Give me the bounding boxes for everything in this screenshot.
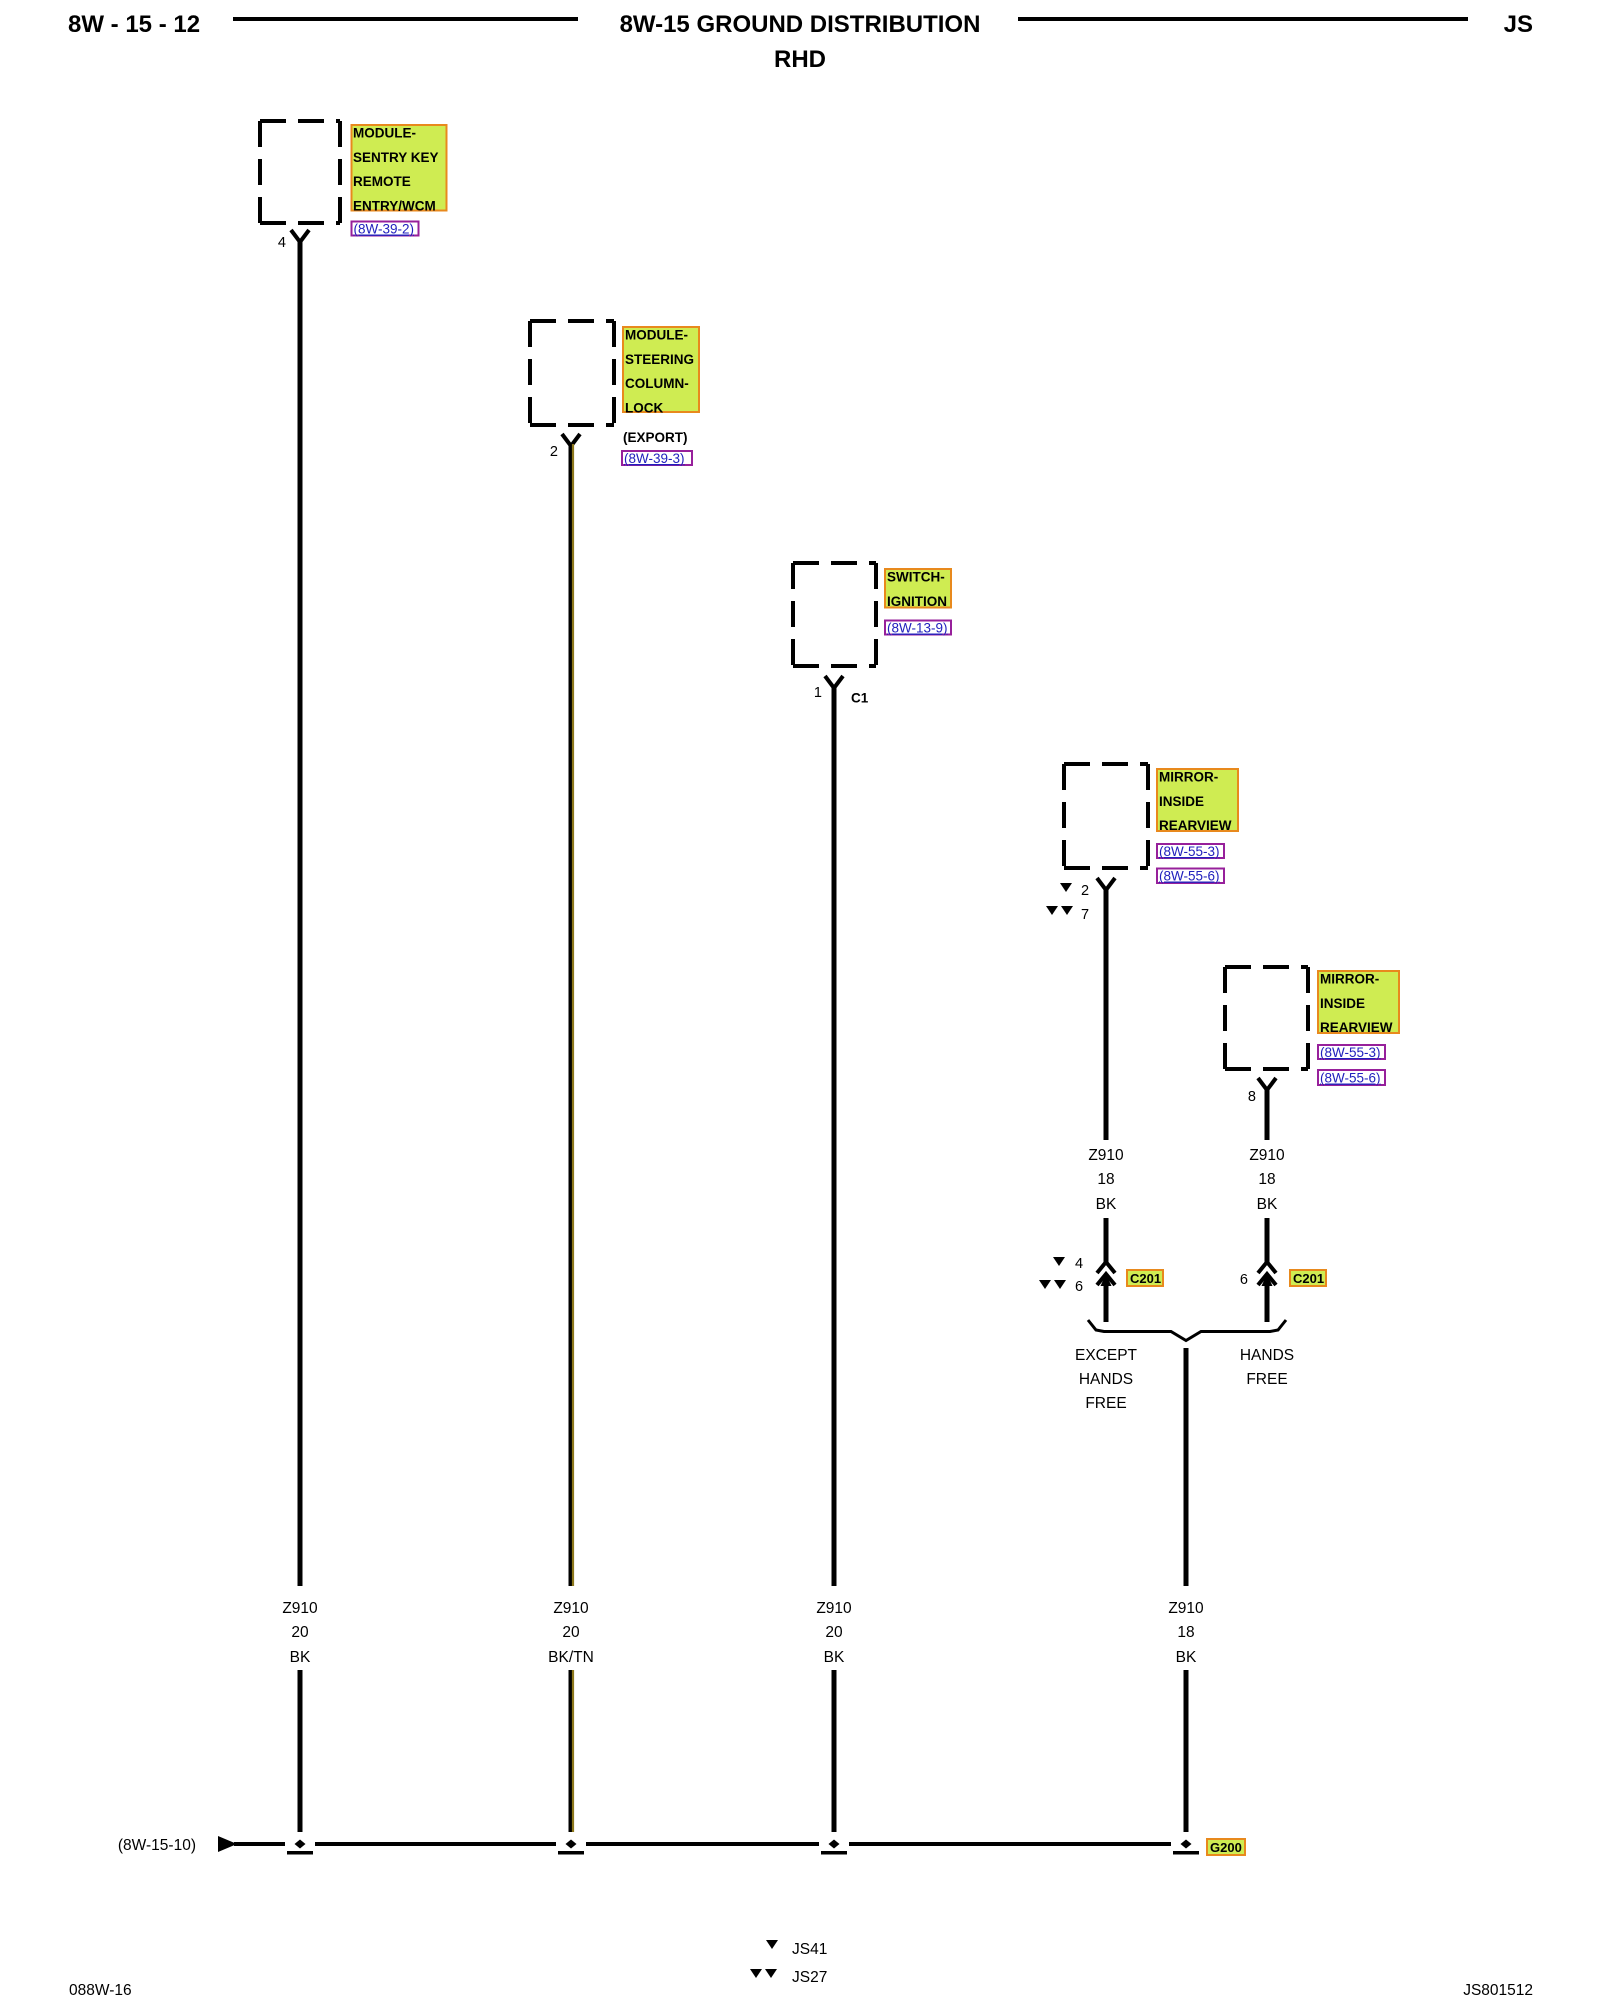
svg-text:ENTRY/WCM: ENTRY/WCM — [353, 198, 436, 213]
svg-text:IGNITION: IGNITION — [887, 594, 947, 609]
svg-text:Z910: Z910 — [553, 1600, 589, 1617]
svg-text:BK: BK — [1257, 1196, 1278, 1213]
svg-text:EXCEPT: EXCEPT — [1075, 1347, 1138, 1364]
svg-text:18: 18 — [1258, 1171, 1275, 1188]
svg-text:20: 20 — [291, 1624, 309, 1641]
svg-text:Z910: Z910 — [1249, 1147, 1285, 1164]
svg-text:4: 4 — [1075, 1256, 1083, 1272]
svg-text:JS27: JS27 — [792, 1969, 827, 1986]
svg-text:20: 20 — [562, 1624, 580, 1641]
svg-text:(8W-39-2): (8W-39-2) — [354, 222, 415, 237]
svg-text:LOCK: LOCK — [625, 400, 663, 415]
svg-text:BK: BK — [290, 1649, 311, 1666]
svg-text:6: 6 — [1075, 1279, 1083, 1295]
svg-text:BK: BK — [1096, 1196, 1117, 1213]
svg-text:INSIDE: INSIDE — [1320, 996, 1365, 1011]
svg-text:(8W-55-6): (8W-55-6) — [1159, 869, 1220, 884]
svg-text:C201: C201 — [1293, 1271, 1324, 1286]
svg-text:COLUMN-: COLUMN- — [625, 376, 689, 391]
svg-text:BK/TN: BK/TN — [548, 1649, 594, 1666]
svg-text:MODULE-: MODULE- — [353, 126, 416, 141]
svg-text:(8W-55-3): (8W-55-3) — [1320, 1045, 1381, 1060]
svg-text:Z910: Z910 — [1168, 1600, 1204, 1617]
svg-text:RHD: RHD — [774, 46, 826, 73]
svg-text:JS41: JS41 — [792, 1941, 827, 1958]
svg-text:(8W-13-9): (8W-13-9) — [887, 621, 948, 636]
svg-text:4: 4 — [278, 235, 286, 251]
svg-text:8W - 15 - 12: 8W - 15 - 12 — [68, 11, 200, 38]
svg-text:7: 7 — [1081, 907, 1089, 923]
svg-text:20: 20 — [825, 1624, 843, 1641]
svg-text:G200: G200 — [1210, 1840, 1242, 1855]
svg-text:2: 2 — [1081, 883, 1089, 899]
svg-text:SWITCH-: SWITCH- — [887, 570, 945, 585]
svg-text:C201: C201 — [1130, 1271, 1161, 1286]
svg-text:REARVIEW: REARVIEW — [1159, 818, 1232, 833]
svg-text:1: 1 — [814, 685, 822, 701]
svg-text:2: 2 — [550, 444, 558, 460]
svg-text:Z910: Z910 — [282, 1600, 318, 1617]
svg-text:JS: JS — [1504, 11, 1533, 38]
svg-text:BK: BK — [1176, 1649, 1197, 1666]
svg-text:FREE: FREE — [1085, 1395, 1126, 1412]
svg-text:JS801512: JS801512 — [1463, 1982, 1533, 1999]
svg-text:HANDS: HANDS — [1079, 1371, 1133, 1388]
svg-text:SENTRY KEY: SENTRY KEY — [353, 150, 439, 165]
svg-text:088W-16: 088W-16 — [69, 1982, 132, 1999]
svg-text:(8W-15-10): (8W-15-10) — [118, 1837, 196, 1854]
svg-text:(8W-55-6): (8W-55-6) — [1320, 1071, 1381, 1086]
svg-text:FREE: FREE — [1246, 1371, 1287, 1388]
svg-text:8: 8 — [1248, 1089, 1256, 1105]
svg-text:(8W-55-3): (8W-55-3) — [1159, 844, 1220, 859]
svg-text:Z910: Z910 — [1088, 1147, 1124, 1164]
svg-text:6: 6 — [1240, 1272, 1248, 1288]
svg-text:REMOTE: REMOTE — [353, 174, 411, 189]
svg-text:BK: BK — [824, 1649, 845, 1666]
svg-text:C1: C1 — [851, 691, 869, 706]
svg-text:18: 18 — [1097, 1171, 1114, 1188]
svg-text:8W-15 GROUND DISTRIBUTION: 8W-15 GROUND DISTRIBUTION — [620, 11, 981, 38]
svg-text:(8W-39-3): (8W-39-3) — [624, 451, 685, 466]
svg-text:Z910: Z910 — [816, 1600, 852, 1617]
svg-text:MODULE-: MODULE- — [625, 328, 688, 343]
svg-text:MIRROR-: MIRROR- — [1159, 770, 1218, 785]
svg-text:HANDS: HANDS — [1240, 1347, 1294, 1364]
svg-text:STEERING: STEERING — [625, 352, 694, 367]
svg-text:MIRROR-: MIRROR- — [1320, 972, 1379, 987]
svg-text:REARVIEW: REARVIEW — [1320, 1020, 1393, 1035]
svg-text:(EXPORT): (EXPORT) — [623, 430, 688, 445]
svg-text:18: 18 — [1177, 1624, 1194, 1641]
svg-text:INSIDE: INSIDE — [1159, 794, 1204, 809]
